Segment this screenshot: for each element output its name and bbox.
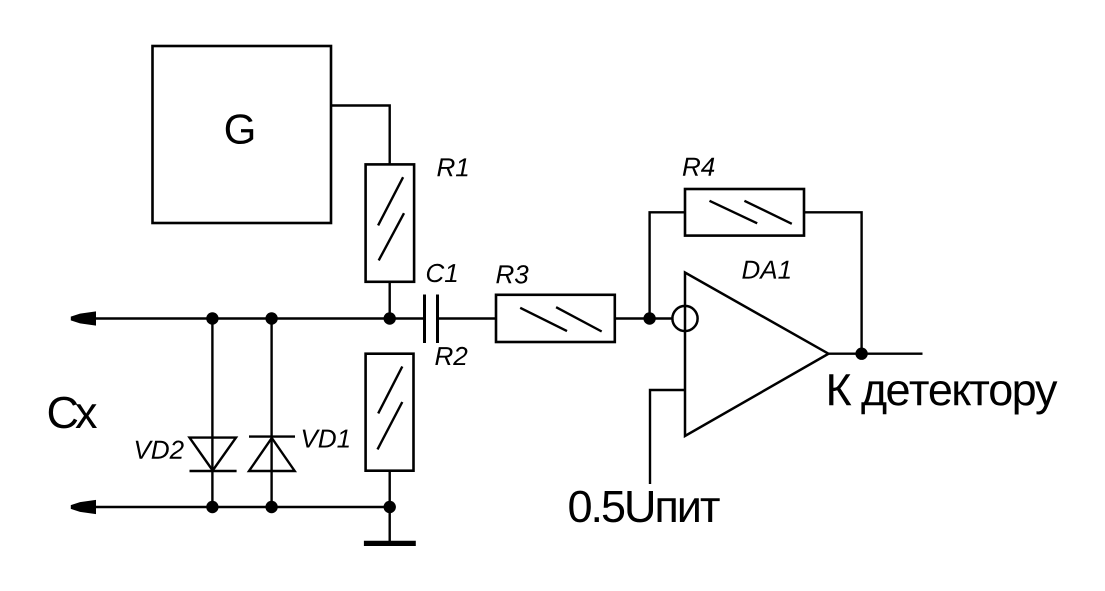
diode VD2 [190,438,237,471]
resistor R1 [366,164,415,281]
label VD1 [303,430,349,448]
label R1 [437,158,467,176]
label K detektoru [829,374,1057,414]
junction node top bus at VD2 [206,312,218,324]
label VD2 [136,441,184,459]
wire bottom bus [93,506,390,508]
wire G to R1 [331,106,390,165]
label 0.5Upit [569,491,719,523]
junction node top bus at R1/R2 [384,312,396,324]
label R3 [496,265,528,284]
wire node to ground [389,507,391,543]
wire VD1 branch [270,319,272,508]
wire VD2 branch [211,319,213,508]
wire R4 to output [804,212,862,353]
resistor R2 [366,354,414,471]
junction node output [855,348,867,360]
junction node bottom bus at VD1 [265,501,277,513]
wire output [829,353,923,355]
junction node bottom bus at VD2 [206,501,218,513]
ground [364,541,416,546]
junction node bottom bus at ground [384,501,396,513]
wire R3 to op-amp input [615,317,673,319]
wire C1 to R3 [438,317,497,319]
resistor R3 [496,295,615,342]
label R2 [435,347,467,365]
generator G box [153,46,332,223]
label G [226,114,253,144]
wire R1 to node [389,282,391,319]
junction node op-amp input [643,312,655,324]
op-amp inverting input circle [672,306,697,331]
capacitor C1 [425,295,438,344]
wire R2 to bottom bus [389,471,391,507]
label R4 [683,158,715,176]
label Cx [49,397,97,429]
wire feedback up to R4 [650,212,685,318]
wire non-inverting input [650,390,685,484]
arrow top bus [71,311,96,325]
resistor R4 [685,189,804,236]
label DA1 [742,261,790,279]
junction node top bus at VD1 [265,312,277,324]
op-amp DA1 triangle [685,273,829,437]
arrow bottom bus [71,500,96,514]
diode VD1 [249,437,295,471]
label C1 [427,264,457,283]
wire top bus [93,317,424,319]
